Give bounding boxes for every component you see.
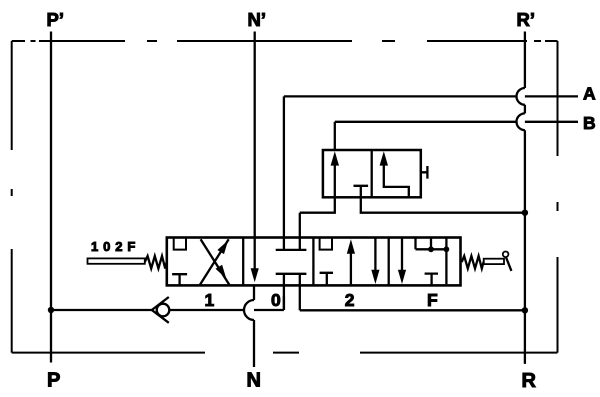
node P junction dot xyxy=(48,307,54,313)
spring right xyxy=(462,256,484,269)
section F gallery bar xyxy=(416,239,447,285)
wire N hop arc xyxy=(244,300,254,320)
wire work port B line xyxy=(335,121,578,123)
wire pilot valve right port to R' xyxy=(361,197,525,212)
svg-text:P: P xyxy=(47,370,60,392)
node F gallery dot left xyxy=(428,246,434,252)
main valve divider 0/2 xyxy=(312,238,314,286)
lever handle stroke xyxy=(506,257,512,271)
svg-text:0: 0 xyxy=(271,290,281,310)
node R' junction dot (pilot return) xyxy=(522,210,528,216)
wire main-valve riser (pilot feed) xyxy=(299,213,301,250)
section 1 blocked port T xyxy=(172,274,187,285)
section 2 up arrow xyxy=(350,253,352,286)
actuator push rod (left) xyxy=(88,258,145,263)
check valve ball circle xyxy=(157,304,170,317)
pilot valve plug stub (right side) xyxy=(421,166,428,179)
svg-text:1: 1 xyxy=(205,290,215,310)
section 2 down arrow xyxy=(374,238,376,271)
wire work port A line xyxy=(284,95,578,97)
section 2 pocket square xyxy=(320,239,332,250)
lever rod (right) xyxy=(484,259,504,264)
wire R'-R vertical line with hops at A and B xyxy=(524,32,526,364)
lever knob circle xyxy=(503,252,509,258)
wire P junction to check valve xyxy=(51,309,152,311)
wire N lower vertical with hop over bottom line xyxy=(253,285,255,367)
svg-text:B: B xyxy=(583,113,596,133)
section 1 pocket square xyxy=(174,239,186,250)
wire R' hop arc at B xyxy=(517,113,525,130)
svg-text:A: A xyxy=(583,84,596,104)
svg-text:N: N xyxy=(247,370,261,392)
svg-text:2: 2 xyxy=(345,290,355,310)
border frame (dash-dot enclosure) xyxy=(12,41,558,353)
check valve seat V xyxy=(152,297,169,323)
svg-text:R’: R’ xyxy=(517,9,536,30)
pilot valve left cell up arrow xyxy=(334,164,336,198)
wire pilot valve left port down-left to main valve xyxy=(300,197,335,212)
wire check valve to valve port (with N hop gap) xyxy=(169,309,284,311)
section F down arrow xyxy=(401,238,403,271)
svg-text:102F: 102F xyxy=(91,239,140,254)
section 0 bottom blocked bar xyxy=(276,273,307,275)
svg-text:N’: N’ xyxy=(248,9,267,30)
pilot valve left cell blocked port T xyxy=(354,186,369,198)
main valve divider 1/0 xyxy=(242,238,244,286)
pilot valve U1 body xyxy=(323,150,421,197)
spring left xyxy=(145,256,167,269)
wire A drop to main valve xyxy=(283,96,285,250)
wire N' vertical line (into valve, neutral passage) xyxy=(254,32,256,271)
section 0 top blocked bar xyxy=(276,249,307,251)
pilot valve right cell L-path with up arrow xyxy=(384,164,409,198)
svg-text:F: F xyxy=(427,290,438,310)
wire B drop to pilot valve xyxy=(334,122,336,150)
wire R' hop arc at A xyxy=(517,88,525,105)
section 0 neutral down arrow xyxy=(251,268,259,282)
wire corner up to section 0 left port xyxy=(283,296,285,310)
section 1 crossed arrow up-right xyxy=(200,239,229,285)
section F blocked port T xyxy=(425,274,438,286)
node R junction dot (tank line) xyxy=(522,307,528,313)
svg-text:R: R xyxy=(522,370,537,392)
wire section 0 right port to R junction xyxy=(300,309,525,311)
main valve divider 2/F xyxy=(388,238,390,286)
pilot valve U1 divider xyxy=(371,150,373,197)
node F gallery dot right xyxy=(444,246,450,252)
section 1 crossed arrow down-right xyxy=(201,239,230,285)
svg-text:P’: P’ xyxy=(47,9,64,30)
wire section 0 right bottom stem to R line xyxy=(299,274,301,311)
wire P'-P vertical line xyxy=(50,32,52,363)
section 2 blocked port T xyxy=(320,273,333,286)
main valve body xyxy=(167,238,461,286)
wire section 0 left bottom stem to tank line xyxy=(283,274,285,310)
